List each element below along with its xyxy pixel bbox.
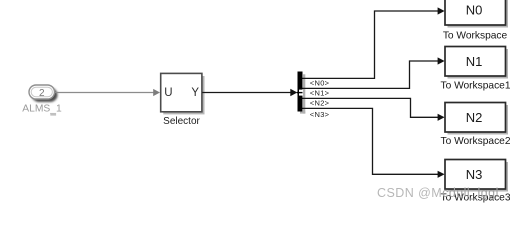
label N0 signal bbox=[310, 78, 330, 87]
svg-text:N3: N3 bbox=[466, 167, 483, 182]
svg-text:U: U bbox=[164, 87, 172, 99]
wire demux out3 to N2 bbox=[303, 98, 445, 121]
svg-text:To Workspace: To Workspace bbox=[443, 30, 508, 41]
smudge mark bbox=[50, 114, 56, 115]
svg-text:<N0>: <N0> bbox=[310, 78, 330, 87]
svg-text:N1: N1 bbox=[466, 54, 483, 69]
label N3 signal bbox=[310, 110, 330, 119]
svg-text:N2: N2 bbox=[466, 110, 483, 125]
svg-text:<N1>: <N1> bbox=[310, 88, 330, 97]
demux bar bbox=[297, 72, 306, 114]
label To Workspace3 bbox=[440, 192, 510, 203]
watermark CSDN bbox=[377, 186, 501, 200]
inport ALMS_1 bbox=[29, 85, 58, 102]
svg-text:To Workspace1: To Workspace1 bbox=[440, 81, 510, 92]
wire demux out4 to N3 bbox=[303, 108, 445, 177]
label Selector bbox=[163, 116, 200, 127]
label To Workspace2 bbox=[440, 136, 510, 147]
svg-text:ALMS_1: ALMS_1 bbox=[22, 104, 62, 115]
wire demux out2 to N1 bbox=[303, 57, 445, 88]
wire demux out1 to N0 bbox=[303, 7, 445, 78]
selector block bbox=[161, 73, 205, 114]
wire inport to Selector bbox=[55, 89, 161, 96]
wire Selector to demux bbox=[202, 89, 297, 96]
to-workspace block N0 bbox=[445, 0, 508, 28]
to-workspace block N1 bbox=[445, 47, 508, 79]
svg-text:CSDN @Mcdull_lggl: CSDN @Mcdull_lggl bbox=[377, 186, 501, 200]
svg-text:Y: Y bbox=[191, 87, 199, 99]
svg-text:N0: N0 bbox=[466, 2, 483, 17]
svg-text:2: 2 bbox=[39, 88, 45, 99]
svg-text:To Workspace2: To Workspace2 bbox=[440, 136, 510, 147]
label N1 signal bbox=[310, 88, 330, 97]
svg-text:Selector: Selector bbox=[163, 116, 200, 127]
label ALMS_1 bbox=[22, 104, 62, 115]
svg-text:<N3>: <N3> bbox=[310, 110, 330, 119]
to-workspace block N3 bbox=[445, 160, 508, 192]
svg-text:<N2>: <N2> bbox=[310, 98, 330, 107]
label To Workspace bbox=[443, 30, 508, 41]
to-workspace block N2 bbox=[445, 103, 508, 135]
label To Workspace1 bbox=[440, 81, 510, 92]
label N2 signal bbox=[310, 98, 330, 107]
